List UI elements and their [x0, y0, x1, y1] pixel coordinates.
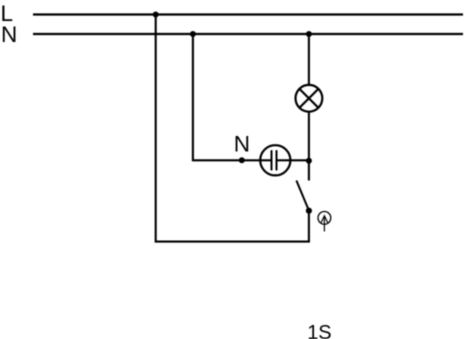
switch S1 blade	[296, 181, 309, 211]
wire insert right lead	[290, 159, 309, 161]
svg-text:1S: 1S	[307, 322, 331, 339]
wire lamp branch from N line down through switch stub	[308, 34, 310, 181]
node switch lower contact	[306, 208, 312, 214]
lamp E1	[296, 85, 323, 112]
svg-text:N: N	[234, 132, 250, 157]
wire N supply line	[33, 33, 463, 35]
wire N drop to insert terminal	[193, 34, 260, 160]
electronic insert U1 (capacitor in circle)	[260, 145, 290, 175]
node N terminal dot	[239, 157, 245, 163]
wire L supply line	[33, 13, 463, 15]
push actuator symbol (circle with arrow)	[318, 212, 331, 232]
wire L drop and bottom return to switch	[156, 15, 309, 242]
node junction on N line	[190, 31, 196, 37]
node junction on L line	[153, 12, 159, 18]
node junction on N line at lamp branch	[306, 31, 312, 37]
svg-text:N: N	[1, 22, 17, 47]
node junction lamp / insert / switch	[306, 158, 312, 164]
